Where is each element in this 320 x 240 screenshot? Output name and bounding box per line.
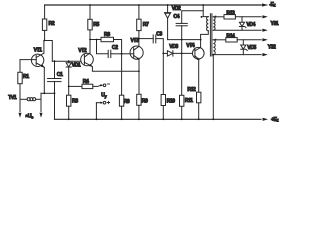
- resistor R14: [213, 33, 267, 42]
- svg-text:R1: R1: [23, 74, 29, 80]
- wire bottom rail: [55, 118, 262, 120]
- svg-text:R13: R13: [226, 10, 235, 16]
- svg-text:R8: R8: [124, 99, 130, 105]
- svg-text:R4: R4: [83, 79, 89, 85]
- wire VT4 emitter down to R12: [198, 59, 200, 92]
- svg-text:R2: R2: [49, 21, 55, 27]
- svg-text:VT2: VT2: [78, 48, 87, 54]
- svg-text:R14: R14: [226, 33, 235, 39]
- resistor R1: [18, 60, 29, 100]
- svg-text:VD3: VD3: [169, 44, 178, 50]
- transformer TV1: [8, 93, 42, 119]
- resistor R3: [67, 95, 79, 119]
- svg-text:R11: R11: [185, 98, 193, 104]
- transformer TV2 primary: [201, 5, 209, 40]
- node Uy plus terminal: [96, 101, 109, 104]
- wire VT2 collector to R5/R6 node: [89, 40, 91, 53]
- svg-text:R6: R6: [104, 32, 110, 38]
- svg-text:VD1: VD1: [72, 62, 81, 68]
- wire C1 column to bottom rail: [54, 93, 56, 119]
- wire top rail: [45, 4, 261, 6]
- transistor VT3: [122, 38, 144, 60]
- wire emitter/C1/TV1 junction: [41, 92, 55, 94]
- wire base bus VT2: [52, 60, 80, 62]
- svg-text:C3: C3: [156, 31, 162, 37]
- wire VT2 emitter to emitter bus: [92, 67, 138, 72]
- resistor R9: [137, 94, 148, 119]
- transformer TV2 core: [210, 14, 212, 56]
- diode VD4 zener: [239, 17, 255, 30]
- wire VT1 emitter down: [43, 67, 45, 93]
- capacitor C3: [139, 31, 163, 53]
- resistor R11: [180, 26, 194, 120]
- resistor R6: [90, 32, 122, 54]
- svg-text:Y31: Y31: [271, 21, 279, 27]
- svg-text:VD4: VD4: [246, 22, 255, 28]
- svg-text:R5: R5: [93, 22, 99, 28]
- svg-text:VT4: VT4: [186, 43, 195, 49]
- resistor R4: [69, 79, 101, 89]
- svg-text:VT1: VT1: [34, 47, 43, 53]
- svg-text:VD5: VD5: [247, 45, 256, 51]
- svg-text:R10: R10: [167, 98, 176, 104]
- wire snubber bus: [168, 39, 201, 41]
- svg-text:VT3: VT3: [131, 38, 140, 44]
- wire VT1 collector to R2 node: [43, 41, 45, 54]
- wire branch node R2/collector to C1 column: [44, 41, 52, 62]
- svg-text:Y32: Y32: [268, 45, 276, 51]
- transformer TV2 secondary 2: [213, 39, 216, 55]
- resistor R8: [119, 54, 129, 120]
- resistor R5: [88, 5, 100, 40]
- svg-text:C2: C2: [112, 45, 118, 51]
- svg-text:R12: R12: [187, 87, 196, 93]
- resistor R7: [137, 5, 149, 46]
- diode VD3: [163, 44, 192, 56]
- resistor R13: [213, 10, 267, 19]
- transistor VT1: [20, 47, 44, 67]
- resistor R12: [187, 87, 201, 119]
- diode VD1: [66, 61, 81, 95]
- capacitor C4: [173, 11, 203, 26]
- node Uy minus terminal: [100, 84, 109, 87]
- node bottom rail arrow to +Ek: [263, 118, 268, 121]
- wire secondary 2 bottom to rail: [212, 55, 214, 120]
- svg-text:R7: R7: [143, 22, 149, 28]
- wire VT3 emitter down: [138, 59, 140, 94]
- svg-text:TV1: TV1: [8, 95, 17, 101]
- wire Uy plus to bottom rail: [95, 103, 97, 120]
- wire VT4 collector up to snubber bus: [200, 40, 202, 48]
- capacitor C2: [97, 40, 122, 58]
- svg-text:C4: C4: [173, 14, 179, 20]
- node top rail arrow to -Ek: [261, 4, 268, 6]
- transistor VT2: [78, 48, 93, 66]
- diode VD2: [164, 5, 181, 40]
- svg-text:R9: R9: [142, 99, 148, 105]
- diode VD5 zener: [241, 40, 257, 55]
- wire secondary 2 lower with arrow: [213, 53, 267, 56]
- resistor R10: [161, 53, 175, 119]
- resistor R2: [42, 5, 54, 41]
- svg-text:C1: C1: [57, 72, 63, 78]
- transformer TV2 secondary 1: [213, 16, 216, 31]
- capacitor C1: [48, 61, 63, 93]
- svg-text:R3: R3: [72, 99, 78, 105]
- wire secondary 1 lower with arrow: [213, 29, 267, 32]
- svg-text:VD2: VD2: [172, 6, 181, 12]
- transistor VT4: [186, 43, 204, 60]
